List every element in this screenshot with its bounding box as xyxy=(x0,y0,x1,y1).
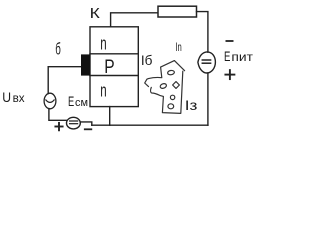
label Esm xyxy=(68,93,88,109)
svg-text:U: U xyxy=(2,89,11,105)
label In xyxy=(175,42,181,54)
wire Uvx top to base bar xyxy=(48,67,81,94)
junction line P/n xyxy=(90,75,138,77)
wire emitter: box bottom to bottom rail xyxy=(109,107,111,126)
wire Epit bottom to bottom rail xyxy=(207,73,209,125)
wire collector: box top to resistor xyxy=(111,13,158,27)
source Epit (circle with = ) xyxy=(198,52,216,73)
svg-text:см: см xyxy=(75,97,88,109)
svg-text:б: б xyxy=(55,39,61,58)
label minus above Epit xyxy=(226,40,232,42)
label Epit xyxy=(224,48,253,64)
label Ib xyxy=(141,52,153,68)
wire resistor to Epit top xyxy=(197,12,208,53)
label Uvx xyxy=(2,89,25,105)
label plus left of Esm xyxy=(55,123,62,130)
wire Esm right jog xyxy=(80,122,92,125)
source Uvx (circle with ~) xyxy=(44,93,56,109)
wire Esm left to Uvx bottom xyxy=(49,109,67,121)
svg-text:n: n xyxy=(100,81,106,101)
svg-text:In: In xyxy=(175,42,181,54)
svg-text:вх: вх xyxy=(13,93,25,105)
bottom rail wire xyxy=(92,124,208,126)
label plus below Epit xyxy=(225,70,234,79)
svg-text:Iб: Iб xyxy=(141,52,153,68)
base contact bar (black) xyxy=(81,54,90,75)
current flow arrow (hand drawn, up through structure) xyxy=(145,61,185,114)
transistor body box xyxy=(90,27,138,107)
svg-text:Е: Е xyxy=(224,48,230,64)
resistor R (load) xyxy=(158,6,197,17)
source Esm (battery circle with = ) xyxy=(67,117,81,129)
label minus right of Esm xyxy=(85,128,92,130)
svg-text:n: n xyxy=(100,34,106,54)
label Ie xyxy=(185,97,198,113)
svg-text:Р: Р xyxy=(104,56,114,78)
junction line n/P xyxy=(90,53,138,55)
svg-text:пит: пит xyxy=(231,50,253,64)
svg-text:Е: Е xyxy=(68,93,74,109)
electron marks xyxy=(167,70,174,75)
svg-text:К: К xyxy=(90,5,100,22)
svg-text:Iз: Iз xyxy=(185,97,198,113)
